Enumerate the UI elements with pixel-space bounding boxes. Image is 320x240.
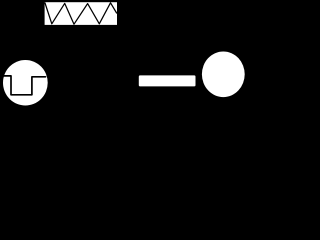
node A (white ellipse) — [202, 52, 245, 98]
wire segment (white dash) — [139, 75, 196, 86]
source U1 square-pulse glyph — [3, 76, 46, 95]
resistor R1 zigzag stroke — [45, 3, 117, 24]
resistor R1 (white box) — [45, 2, 117, 25]
source U1 body (white circle) — [3, 60, 48, 106]
